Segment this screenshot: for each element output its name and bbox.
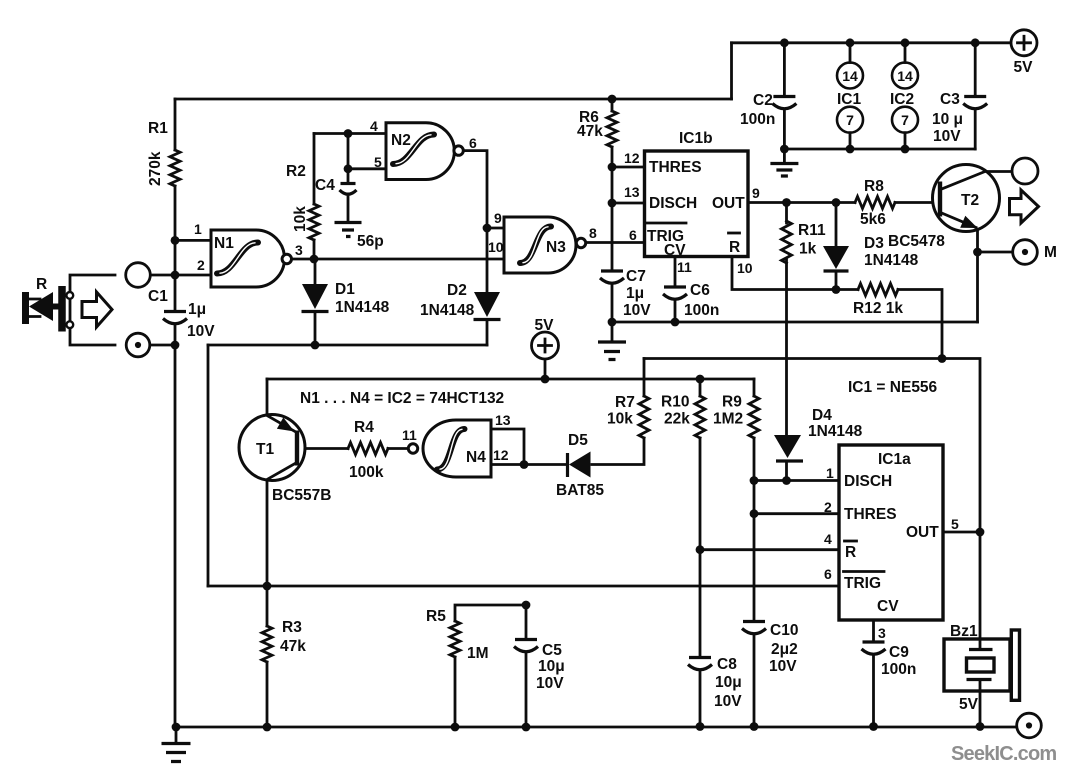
wire ground bus y345 D1 D2 bbox=[208, 344, 487, 347]
node C5 top bbox=[522, 601, 531, 610]
diode D3 1N4148 bbox=[823, 246, 849, 269]
svg-text:11: 11 bbox=[402, 427, 417, 443]
wire T1 collector down R3 to rail bbox=[266, 480, 269, 727]
node 5V rail IC2 bbox=[901, 38, 910, 47]
svg-text:R11: R11 bbox=[798, 222, 826, 239]
node T1 collector / TRIG bbox=[263, 582, 272, 591]
svg-text:7: 7 bbox=[846, 112, 854, 128]
wire N1 pin2 from connector bbox=[151, 274, 212, 277]
wire R7 column bbox=[592, 359, 644, 465]
svg-text:DISCH: DISCH bbox=[844, 473, 892, 490]
svg-text:5: 5 bbox=[951, 516, 959, 532]
svg-text:R3: R3 bbox=[282, 619, 302, 636]
svg-text:N1 . . . N4 = IC2 = 74HCT132: N1 . . . N4 = IC2 = 74HCT132 bbox=[300, 390, 504, 407]
wire R10/C8 column bbox=[699, 379, 702, 727]
resistor R12 1k bbox=[858, 284, 898, 296]
wire 5V supply stem bbox=[544, 359, 547, 379]
svg-text:OUT: OUT bbox=[906, 524, 939, 541]
node rail C10 bbox=[750, 722, 759, 731]
pin circle IC1 pin7 bbox=[837, 107, 863, 133]
wire R2 top to N2 pin4 bbox=[314, 132, 386, 135]
svg-text:C3: C3 bbox=[940, 91, 960, 108]
node R9 / pin2 bbox=[750, 509, 759, 518]
svg-text:SeekIC.com: SeekIC.com bbox=[951, 743, 1056, 765]
node C7 ground bbox=[608, 318, 617, 327]
node N4 pins 12/13 bbox=[520, 460, 529, 469]
svg-text:1N4148: 1N4148 bbox=[335, 299, 390, 316]
svg-text:47k: 47k bbox=[577, 123, 603, 140]
diode D2 1N4148 bbox=[474, 292, 500, 317]
svg-text:C5: C5 bbox=[542, 642, 562, 659]
node IC1b out pin9 / R11 bbox=[782, 198, 791, 207]
wire top rail riser bbox=[730, 43, 733, 99]
node N2 pin4 / C4 bbox=[344, 129, 353, 138]
ground main bottom-left bbox=[175, 727, 178, 743]
resistor R4 100k bbox=[348, 443, 388, 455]
wire N2 out down to N3 pin9 bbox=[463, 151, 504, 228]
wire T2 emitter to M and ground bbox=[978, 227, 1013, 322]
resistor R3 47k bbox=[262, 626, 272, 662]
svg-text:3: 3 bbox=[295, 242, 303, 258]
diode D1 1N4148 bbox=[302, 284, 328, 309]
svg-text:IC1a: IC1a bbox=[878, 451, 911, 468]
svg-text:1M: 1M bbox=[467, 645, 489, 662]
svg-text:10k: 10k bbox=[607, 411, 633, 428]
svg-text:C9: C9 bbox=[889, 644, 909, 661]
svg-text:C2: C2 bbox=[753, 92, 773, 109]
svg-text:1N4148: 1N4148 bbox=[808, 423, 863, 440]
wire 5V mid rail y379 bbox=[267, 378, 754, 381]
svg-text:R4: R4 bbox=[354, 419, 374, 436]
wire D1 vertical bbox=[314, 259, 317, 345]
op-amp N1 NAND schmitt bbox=[211, 230, 285, 287]
svg-text:IC1: IC1 bbox=[837, 91, 862, 108]
wire R9/C10 column bbox=[753, 379, 756, 727]
wire x208 vertical to TRIG net bbox=[207, 345, 210, 586]
svg-text:D4: D4 bbox=[812, 407, 832, 424]
node N2 out / N3 pin9 / D2 bbox=[483, 224, 492, 233]
phono plug R symbol bbox=[26, 286, 74, 332]
svg-text:DISCH: DISCH bbox=[649, 195, 697, 212]
svg-text:M: M bbox=[1044, 244, 1057, 261]
svg-text:R2: R2 bbox=[286, 163, 306, 180]
svg-text:C7: C7 bbox=[626, 268, 646, 285]
svg-text:OUT: OUT bbox=[712, 195, 745, 212]
wire OUT5 net to buzzer bbox=[979, 532, 982, 727]
capacitor C9 100n bbox=[863, 640, 885, 643]
svg-text:R12 1k: R12 1k bbox=[853, 300, 903, 317]
resistor R11 1k bbox=[782, 221, 792, 263]
svg-text:4: 4 bbox=[824, 531, 832, 547]
svg-text:6: 6 bbox=[629, 227, 637, 243]
resistor R7 10k bbox=[639, 396, 649, 438]
node N1 out / R2 / D1 bbox=[310, 255, 319, 264]
svg-text:9: 9 bbox=[752, 185, 760, 201]
svg-text:9: 9 bbox=[494, 210, 502, 226]
node C1 bottom bbox=[171, 341, 180, 350]
svg-text:R10: R10 bbox=[661, 394, 689, 411]
svg-text:4: 4 bbox=[370, 118, 378, 134]
svg-text:100n: 100n bbox=[881, 661, 916, 678]
node rail R5 bbox=[451, 723, 460, 732]
svg-text:C4: C4 bbox=[315, 177, 335, 194]
svg-text:12: 12 bbox=[624, 150, 640, 166]
svg-text:C8: C8 bbox=[717, 656, 737, 673]
diode D5 BAT85 bbox=[566, 453, 569, 477]
svg-text:1: 1 bbox=[826, 465, 834, 481]
svg-text:10V: 10V bbox=[714, 693, 742, 710]
svg-text:THRES: THRES bbox=[844, 506, 897, 523]
capacitor C1 1u 10V bbox=[164, 310, 186, 313]
wire R6 column bbox=[611, 99, 614, 322]
ground C7/C6 bbox=[611, 322, 614, 341]
svg-text:22k: 22k bbox=[664, 411, 690, 428]
node R12 / OUT5 net bbox=[938, 354, 947, 363]
node R6 top bbox=[608, 95, 617, 104]
svg-text:1: 1 bbox=[194, 221, 202, 237]
svg-text:TRIG: TRIG bbox=[844, 575, 881, 592]
wire IC1b pin13 bbox=[612, 202, 645, 205]
svg-text:11: 11 bbox=[677, 259, 692, 275]
svg-text:5V: 5V bbox=[535, 317, 555, 334]
svg-text:10V: 10V bbox=[187, 323, 215, 340]
connector input tip circle bbox=[126, 263, 151, 288]
svg-text:C10: C10 bbox=[770, 622, 798, 639]
svg-text:IC1 = NE556: IC1 = NE556 bbox=[848, 379, 938, 396]
node 5V rail IC1 bbox=[846, 38, 855, 47]
wire R12 to right corner bbox=[836, 290, 942, 359]
wire D2 vertical bbox=[486, 228, 489, 345]
resistor R6 47k bbox=[607, 111, 617, 147]
wire IC1b pin12 bbox=[612, 166, 645, 169]
svg-text:10V: 10V bbox=[536, 675, 564, 692]
svg-text:N3: N3 bbox=[546, 239, 566, 256]
wire IC1a pin4 R bbox=[700, 548, 839, 551]
svg-text:T2: T2 bbox=[961, 192, 979, 209]
svg-text:1N4148: 1N4148 bbox=[864, 252, 919, 269]
wire N1 pin1 bbox=[175, 239, 211, 242]
node R10 / pin4 bbox=[696, 545, 705, 554]
op-amp N2 NAND schmitt bbox=[386, 123, 454, 180]
svg-text:10V: 10V bbox=[769, 658, 797, 675]
svg-text:2: 2 bbox=[824, 499, 832, 515]
node rail C8 bbox=[696, 722, 705, 731]
op-amp N3 NAND schmitt bbox=[504, 217, 576, 273]
node pwr gnd IC1 bbox=[846, 145, 855, 154]
output arrow T2 bbox=[1010, 190, 1039, 223]
node rail C9 bbox=[869, 722, 878, 731]
wire IC1b OUT pin9 to T2 base bbox=[748, 201, 938, 204]
node 5V rail C2 bbox=[780, 38, 789, 47]
node IC1b pin12 bbox=[608, 163, 617, 172]
svg-text:1k: 1k bbox=[799, 241, 817, 258]
svg-text:10k: 10k bbox=[292, 206, 309, 232]
capacitor C6 100n bbox=[664, 285, 686, 288]
resistor R2 10k bbox=[309, 204, 319, 240]
capacitor C2 100n bbox=[773, 95, 795, 98]
node rail C5 bbox=[522, 723, 531, 732]
svg-text:CV: CV bbox=[877, 598, 899, 615]
svg-text:1M2: 1M2 bbox=[713, 411, 743, 428]
svg-text:270k: 270k bbox=[147, 151, 164, 186]
svg-text:R1: R1 bbox=[148, 120, 168, 137]
svg-text:BC5478: BC5478 bbox=[888, 233, 945, 250]
node D3 top bbox=[832, 198, 841, 207]
svg-text:D3: D3 bbox=[864, 235, 884, 252]
transistor T2 BC547B bbox=[933, 165, 1013, 232]
svg-text:C6: C6 bbox=[690, 282, 710, 299]
capacitor C10 2u2 10V bbox=[743, 620, 765, 623]
node D4 / pin1 bbox=[782, 476, 791, 485]
pin circle IC2 pin14 bbox=[892, 63, 918, 89]
svg-text:8: 8 bbox=[589, 225, 597, 241]
op-amp IC1a timer NE556 half bbox=[839, 445, 943, 620]
wire IC1a pin5 OUT bbox=[943, 531, 980, 534]
wire R2 vertical bbox=[313, 134, 316, 260]
wire R11/D4 column bbox=[785, 203, 788, 481]
svg-text:THRES: THRES bbox=[649, 159, 702, 176]
node C6 ground bbox=[671, 318, 680, 327]
node N1 pin2 bbox=[171, 271, 180, 280]
svg-text:10μ: 10μ bbox=[715, 674, 742, 691]
resistor R9 1M2 bbox=[749, 396, 759, 438]
wire C2 stem bbox=[783, 43, 786, 149]
svg-text:2μ2: 2μ2 bbox=[771, 641, 798, 658]
ground C2 power bbox=[783, 149, 786, 162]
wire N3 out to IC1b TRIG bbox=[586, 241, 644, 244]
wire power gnd bus bbox=[784, 148, 975, 151]
resistor R5 1M bbox=[450, 621, 460, 657]
capacitor C4 56p bbox=[341, 182, 356, 185]
connector input shield circle bbox=[126, 333, 150, 357]
wire input bracket bbox=[70, 275, 115, 345]
svg-text:R8: R8 bbox=[864, 178, 884, 195]
svg-text:5k6: 5k6 bbox=[860, 211, 886, 228]
svg-text:47k: 47k bbox=[280, 638, 306, 655]
node 5V mid rail supply bbox=[541, 375, 550, 384]
svg-text:5V: 5V bbox=[1014, 59, 1034, 76]
svg-text:R5: R5 bbox=[426, 608, 446, 625]
resistor R10 22k bbox=[695, 396, 705, 438]
wire IC1b pin11 CV to C6 bbox=[674, 257, 677, 323]
diode D4 1N4148 bbox=[774, 435, 801, 458]
svg-text:14: 14 bbox=[842, 68, 858, 84]
op-amp N4 NAND schmitt (mirrored) bbox=[423, 420, 491, 477]
svg-text:1μ: 1μ bbox=[188, 301, 206, 318]
wire N1 out pin3 to N3 bbox=[292, 258, 505, 261]
node pwr gnd C2 bbox=[780, 145, 789, 154]
op-amp IC1b timer NE556 half bbox=[645, 151, 749, 257]
wire N2 pin5 bbox=[348, 134, 386, 169]
svg-text:3: 3 bbox=[878, 625, 886, 641]
svg-text:100k: 100k bbox=[349, 464, 384, 481]
svg-text:2: 2 bbox=[197, 257, 205, 273]
input arrow bbox=[82, 292, 112, 327]
capacitor C8 10u 10V bbox=[689, 656, 711, 659]
wire IC1a pin2 THRES bbox=[754, 512, 839, 515]
wire R5 top bbox=[455, 605, 526, 727]
node C1 top / N1 pin1 bbox=[171, 236, 180, 245]
svg-text:13: 13 bbox=[624, 184, 640, 200]
svg-text:D2: D2 bbox=[447, 282, 467, 299]
node rail R3 bbox=[263, 723, 272, 732]
svg-text:1μ: 1μ bbox=[626, 285, 644, 302]
svg-text:R9: R9 bbox=[722, 394, 742, 411]
svg-text:6: 6 bbox=[824, 566, 832, 582]
wire ground bus y322 bbox=[612, 321, 978, 324]
T2 output connector bbox=[1012, 158, 1038, 184]
wire left main vertical R1/C1 bbox=[174, 99, 177, 727]
svg-text:100n: 100n bbox=[740, 111, 775, 128]
svg-text:R7: R7 bbox=[615, 394, 635, 411]
svg-text:N1: N1 bbox=[214, 235, 234, 252]
wire IC1a pin3 CV to C9 bbox=[872, 620, 875, 727]
svg-text:BAT85: BAT85 bbox=[556, 482, 604, 499]
svg-text:13: 13 bbox=[495, 412, 511, 428]
wire top horizontal y99 bbox=[175, 98, 732, 101]
svg-text:6: 6 bbox=[469, 135, 477, 151]
svg-text:IC2: IC2 bbox=[890, 91, 914, 108]
capacitor C3 10u 10V bbox=[964, 95, 986, 98]
node pwr gnd IC2 bbox=[901, 145, 910, 154]
wire C3 stem bbox=[974, 43, 977, 149]
node D3 bottom / R12 bbox=[832, 285, 841, 294]
svg-text:1N4148: 1N4148 bbox=[420, 302, 475, 319]
node rail main gnd bbox=[172, 723, 181, 732]
pin circle IC2 pin7 bbox=[892, 107, 918, 133]
node 5V rail C3 bbox=[971, 38, 980, 47]
wire T1 emitter riser bbox=[266, 379, 269, 415]
svg-text:10: 10 bbox=[488, 239, 504, 255]
wire N4 pins 13/12 bbox=[491, 429, 524, 465]
node N2 pin5 / C4 bbox=[344, 164, 353, 173]
wire OUT5 net y358.5 bbox=[644, 359, 980, 533]
wire IC1b pin10 R to D3 bottom bbox=[732, 257, 836, 290]
svg-text:10 μ: 10 μ bbox=[932, 111, 963, 128]
wire top rail 5V bbox=[732, 41, 1012, 44]
node IC1a out pin5 bbox=[976, 528, 985, 537]
wire C5 stem bbox=[525, 605, 528, 727]
wire D3 vertical bbox=[835, 203, 838, 290]
resistor R1 270k bbox=[170, 150, 180, 186]
svg-text:N4: N4 bbox=[466, 449, 486, 466]
svg-text:10μ: 10μ bbox=[538, 658, 565, 675]
wire long TRIG y586 bbox=[208, 585, 839, 588]
svg-text:10V: 10V bbox=[623, 302, 651, 319]
power +5V middle bbox=[532, 332, 559, 359]
svg-text:T1: T1 bbox=[256, 441, 274, 458]
wire connector shield to C1 bbox=[150, 344, 175, 347]
svg-text:100n: 100n bbox=[684, 302, 719, 319]
svg-text:CV: CV bbox=[664, 242, 686, 259]
svg-text:C1: C1 bbox=[148, 288, 168, 305]
power +5V top right bbox=[1011, 30, 1037, 56]
wire bottom ground rail bbox=[176, 726, 1017, 729]
node rail Bz1 bbox=[976, 722, 985, 731]
node R10 top bbox=[696, 375, 705, 384]
svg-text:R: R bbox=[729, 239, 740, 256]
svg-text:D5: D5 bbox=[568, 432, 588, 449]
svg-text:R: R bbox=[845, 544, 856, 561]
svg-text:5V: 5V bbox=[959, 696, 979, 713]
svg-text:12: 12 bbox=[493, 447, 509, 463]
svg-text:R: R bbox=[36, 276, 47, 293]
svg-text:5: 5 bbox=[374, 154, 382, 170]
connector bottom right bbox=[1017, 713, 1042, 738]
svg-text:14: 14 bbox=[897, 68, 913, 84]
node IC1b pin13 bbox=[608, 199, 617, 208]
node T2 emitter / M bbox=[973, 248, 982, 257]
capacitor C7 1u 10V bbox=[601, 269, 623, 272]
capacitor C5 10u 10V bbox=[515, 638, 537, 641]
node D1 bottom bbox=[311, 341, 320, 350]
connector M bbox=[1013, 240, 1038, 265]
wire T1 base to R4 bbox=[299, 447, 409, 450]
svg-text:10V: 10V bbox=[933, 128, 961, 145]
svg-text:7: 7 bbox=[901, 112, 909, 128]
svg-text:D1: D1 bbox=[335, 281, 355, 298]
wire N4 to D5 bbox=[524, 463, 565, 466]
node R9 / pin1 bbox=[750, 476, 759, 485]
wire IC1a pin1 DISCH bbox=[754, 479, 839, 482]
resistor R8 5k6 bbox=[855, 197, 895, 209]
svg-text:IC1b: IC1b bbox=[679, 130, 713, 147]
wire C4 stem bbox=[347, 169, 350, 221]
svg-text:N2: N2 bbox=[391, 132, 411, 149]
pin circle IC1 pin14 bbox=[837, 63, 863, 89]
transistor T1 BC557B bbox=[239, 415, 305, 481]
svg-text:BC557B: BC557B bbox=[272, 487, 331, 504]
svg-text:10: 10 bbox=[737, 260, 753, 276]
svg-text:56p: 56p bbox=[357, 233, 384, 250]
buzzer Bz1 5V bbox=[944, 630, 1020, 700]
ground C4 bbox=[335, 223, 362, 237]
svg-text:Bz1: Bz1 bbox=[950, 623, 978, 640]
